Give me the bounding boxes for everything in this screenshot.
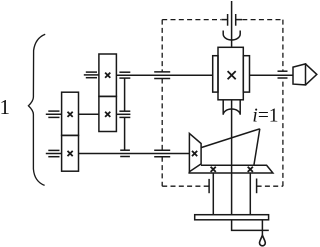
shaft B stub right of box bbox=[116, 113, 130, 115]
turntable bar bbox=[195, 215, 269, 220]
worm left bearing block bbox=[213, 56, 218, 92]
dashed housing box bbox=[162, 20, 283, 187]
bevel pitch cone line bbox=[201, 129, 260, 148]
x mark lower-right gear bbox=[105, 112, 110, 117]
x mark upper-right gear bbox=[105, 73, 110, 78]
vertical shaft (lower part) bbox=[231, 100, 233, 215]
x mark lower-left gear bbox=[68, 151, 73, 156]
drum column right bbox=[249, 173, 251, 215]
worm box (on shaft A) bbox=[218, 47, 243, 100]
ticks connecting top bearing to housing dashes bbox=[221, 19, 227, 21]
drum column left bbox=[212, 173, 214, 215]
bearing (frame) shaft B left bbox=[46, 111, 62, 117]
plumb bob bbox=[260, 235, 266, 246]
housing left edge bbox=[161, 20, 163, 72]
shaft A right of worm bbox=[250, 74, 294, 76]
bearing (frame) shaft A left bbox=[84, 72, 99, 78]
brace (gearbox group 1) bbox=[28, 34, 45, 185]
x mark bevel pinion bbox=[192, 151, 197, 156]
vertical shaft (top) bbox=[231, 1, 233, 47]
plumb line bbox=[261, 220, 263, 235]
pinion left edge to rim bottom bbox=[188, 172, 190, 173]
gearbox wall bearing plates at shaft B bbox=[119, 110, 130, 112]
worm wheel upper rim bbox=[223, 31, 240, 41]
cone / input at shaft A right end bbox=[293, 64, 306, 85]
bearing (frame) shaft C left bbox=[46, 150, 62, 156]
x mark bevel wheel right bbox=[248, 167, 253, 172]
channel under table bbox=[232, 220, 269, 231]
x mark upper-left gear bbox=[68, 112, 73, 117]
shaft A to the right bbox=[116, 74, 212, 76]
housing right edge bbox=[282, 20, 284, 72]
floor bearing tick left bbox=[208, 179, 210, 193]
gearbox wall bearing plates at shaft C bbox=[120, 149, 130, 151]
gearbox wall segment A-B bbox=[124, 78, 126, 111]
shaft B between boxes bbox=[79, 113, 99, 115]
gearbox wall bearing plates on shaft A bbox=[119, 71, 130, 73]
vertical shaft top bearing bbox=[227, 14, 229, 26]
bevel pinion on shaft C bbox=[189, 133, 201, 171]
gear box upper-right (shaft A) bbox=[99, 54, 117, 96]
svg-text:i=1: i=1 bbox=[252, 105, 278, 126]
gear box lower-left (shaft C) bbox=[62, 135, 79, 171]
housing bearing on shaft A (right wall crossing) bbox=[278, 70, 288, 72]
housing top edge bbox=[162, 19, 221, 21]
housing bearing on shaft C (left wall crossing) bbox=[154, 149, 170, 151]
bevel wheel rim (on vertical shaft) bbox=[188, 165, 273, 173]
x mark bevel wheel left bbox=[211, 167, 216, 172]
gear box upper-left (shaft B) bbox=[62, 92, 79, 135]
worm right bearing block bbox=[243, 56, 249, 92]
housing bearing on shaft A (left wall crossing) bbox=[154, 71, 170, 73]
bevel wheel back edge bbox=[254, 129, 260, 166]
floor bearing tick right bbox=[256, 179, 258, 194]
housing bottom edge bbox=[162, 185, 209, 187]
gear box lower-right (shaft B) bbox=[99, 96, 117, 131]
worm wheel lower rim bbox=[223, 100, 240, 115]
gearbox wall segment B-C bbox=[124, 117, 126, 150]
shaft C to the right bbox=[79, 153, 190, 155]
x mark worm bbox=[228, 71, 236, 79]
svg-text:1: 1 bbox=[0, 95, 10, 119]
